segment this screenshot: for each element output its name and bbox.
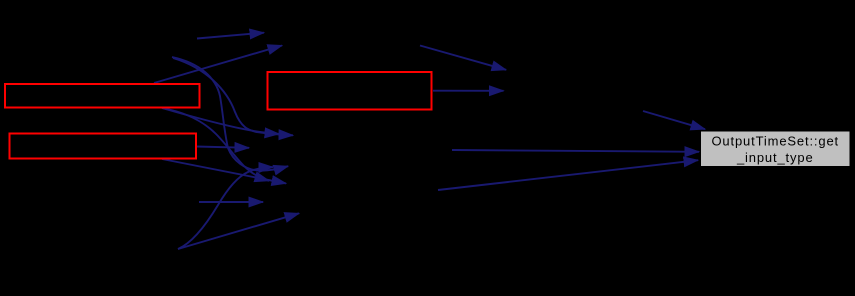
- wire edge S9 horizontal bottom: [199, 201, 263, 203]
- node box2 red (caller, truncated): [10, 134, 197, 159]
- wire edge S7 long rising into gray node: [438, 160, 698, 190]
- svg-text:_input_type: _input_type: [736, 150, 814, 165]
- node box3 red middle (caller, truncated, two-line): [268, 72, 432, 110]
- svg-text:OutputTimeSet::get: OutputTimeSet::get: [711, 133, 839, 148]
- wire curve C3 from bottom-left node up through knot: [178, 167, 273, 249]
- wire curve C1b from top node to upper arrowhead pair: [173, 58, 293, 135]
- node box1 red (caller, truncated): [5, 84, 200, 108]
- wire edge S3 from middle node right horizontal: [433, 90, 504, 92]
- wire edge K1 straight from node box2 bottom to lower-right arrowhead: [162, 159, 286, 183]
- wire edge S1 top short arrow: [197, 33, 264, 39]
- node U1 gray current node OutputTimeSet::get_input_type: [701, 131, 851, 167]
- wire edge S8 horizontal from node box2 right: [196, 147, 249, 148]
- wire curve C1 from top node down through bundle, bends right to arrowhead: [172, 57, 288, 171]
- wire curve C2 from node box1 bottom to arrowhead pair A: [162, 108, 279, 134]
- wire edge S4 diagonal to invisible node: [420, 46, 506, 70]
- wire edge S2 from node box1 top to upper-right: [154, 46, 282, 84]
- wire edge S10 long diagonal bottom: [178, 213, 299, 249]
- wire edge S6 long horizontal into gray node: [452, 150, 699, 152]
- wire curve D1 from node box1 bottom steep through knot to lower arrowhead: [162, 108, 269, 181]
- wire edge S5 into gray node top-left: [643, 111, 705, 129]
